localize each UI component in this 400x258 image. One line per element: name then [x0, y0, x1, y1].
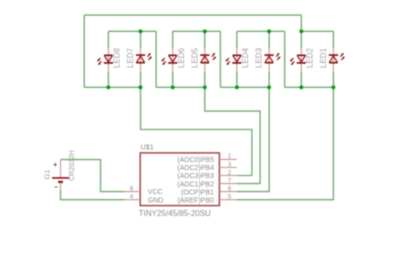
wire LED branch segments: [108, 31, 333, 87]
svg-text:(AREF)PB0: (AREF)PB0: [177, 197, 214, 204]
svg-text:(OCP)PB1: (OCP)PB1: [181, 189, 214, 196]
svg-text:7: 7: [228, 177, 232, 184]
svg-text:(ADC3)PB3: (ADC3)PB3: [177, 173, 214, 180]
wire net PB3 rail B1: [84, 86, 140, 88]
svg-text:VCC: VCC: [148, 189, 163, 196]
svg-text:CR2032H: CR2032H: [69, 150, 76, 181]
wire net PB2 segment T1: [108, 30, 156, 32]
svg-text:1: 1: [228, 153, 232, 160]
LED1: [329, 53, 345, 63]
svg-text:LED3: LED3: [255, 47, 264, 68]
LED8: [97, 55, 113, 65]
svg-text:6: 6: [228, 185, 232, 192]
wire net PB0 extension down: [284, 31, 286, 87]
LED2: [290, 55, 306, 65]
wire net PB1 segment T2: [173, 30, 221, 32]
wire net PB2 descender to pin 7: [205, 87, 260, 183]
IC right pin stubs: [219, 159, 236, 199]
LED5: [200, 53, 216, 63]
LED pin stubs: [108, 48, 333, 71]
battery G1 short plate: [58, 181, 63, 183]
svg-text:2: 2: [228, 169, 232, 176]
LED3: [265, 53, 281, 63]
LED7: [136, 53, 152, 63]
svg-text:LED2: LED2: [306, 47, 315, 68]
junction dots bottom rails: [106, 85, 335, 89]
svg-text:(ADC1)PB2: (ADC1)PB2: [177, 181, 214, 188]
svg-text:5: 5: [228, 194, 232, 201]
wire net PB0 segment T3: [237, 30, 285, 32]
wire net PB3 drop to T4: [300, 15, 302, 31]
battery plus sign: [54, 163, 57, 166]
svg-text:LED5: LED5: [190, 47, 199, 68]
svg-text:LED4: LED4: [241, 47, 250, 68]
IC U$1 box: [140, 153, 219, 206]
svg-text:4: 4: [130, 194, 134, 201]
svg-text:(ADC2)PB4: (ADC2)PB4: [177, 165, 214, 172]
svg-text:U$1: U$1: [141, 142, 154, 151]
wire net PB3 descender to pin 2: [141, 87, 252, 175]
svg-text:LED7: LED7: [126, 47, 135, 68]
junction dots top segments: [139, 29, 304, 33]
svg-text:LED1: LED1: [319, 47, 328, 68]
svg-text:TINY25/45/85-20SU: TINY25/45/85-20SU: [139, 209, 211, 218]
svg-text:LED6: LED6: [177, 47, 186, 68]
LED6: [161, 55, 177, 65]
wire net PB3 segment T4: [301, 30, 333, 32]
svg-text:G1: G1: [43, 169, 52, 179]
svg-text:(ADC0)PB5: (ADC0)PB5: [177, 157, 214, 164]
wire net PB0 rail B4: [285, 86, 334, 88]
battery minus sign: [55, 186, 58, 188]
svg-text:GND: GND: [148, 197, 164, 204]
wire GND net from battery minus: [61, 190, 125, 200]
wire net PB1 extension down: [219, 31, 221, 87]
wire net PB0 descender to pin 5: [237, 87, 334, 199]
wire net PB3 top rail: [84, 14, 301, 16]
wire net PB1 descender to pin 6: [237, 87, 269, 191]
battery G1 pin stubs: [60, 160, 62, 191]
svg-text:LED8: LED8: [113, 47, 122, 68]
LED4: [226, 55, 242, 65]
wire net PB3 left drop: [83, 15, 85, 87]
wire net PB1 rail B3: [220, 86, 269, 88]
svg-text:3: 3: [228, 161, 232, 168]
wire VCC net from battery plus: [61, 160, 125, 192]
wire net PB2 rail B2: [156, 86, 205, 88]
battery G1 long plate: [52, 177, 69, 179]
IC left pin stubs: [124, 192, 140, 200]
svg-text:8: 8: [130, 185, 134, 192]
wire net PB2 extension down: [155, 31, 157, 87]
